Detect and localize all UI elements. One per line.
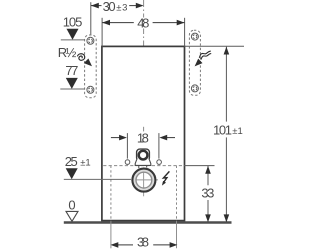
svg-text:0: 0 [68,197,75,212]
extension line 48 right [184,18,186,47]
dashed level line inside panel [103,165,184,167]
level marker 25±1 [64,154,158,180]
floor line [64,221,232,223]
connection symbol bottom left strip [87,86,94,93]
svg-text:30: 30 [103,0,116,14]
level marker 0 (floor) [66,197,78,221]
svg-text:38: 38 [137,235,149,250]
level marker 77 [60,63,84,89]
outlet pipe (big double circle) [131,167,158,196]
dimension 30±3 [91,0,144,14]
svg-text:33: 33 [201,185,214,200]
small fixing circle left [125,160,130,165]
electrical strip top right (dashed) [189,30,200,95]
extension line 30 left (to water strip) [90,2,92,35]
electrical flash symbol [162,171,170,185]
svg-text:18: 18 [137,130,149,145]
centerline (vertical dash-dot axis) [143,0,145,196]
svg-text:±1: ±1 [232,126,243,137]
water supply strip left (dashed) [85,35,97,98]
svg-text:±3: ±3 [116,3,127,14]
coil arrow top strip [195,51,212,66]
svg-text:48: 48 [137,15,149,30]
connection symbol top left strip [87,37,94,44]
water valve housing [135,149,151,168]
extension line top right (101 top reference) [185,45,244,47]
dimension 33 (right lower) [201,166,214,222]
svg-text:101: 101 [213,122,232,137]
connection symbol top right strip [191,33,198,40]
extension line 33 reference (right) [185,165,215,167]
dimension 18 (top of outlet fittings) [111,127,175,159]
panel (sanitary module outline) [102,46,185,220]
small fixing circle right [157,160,162,165]
level marker 105 [61,15,85,40]
svg-text:77: 77 [65,63,78,78]
connection symbol bottom right strip [191,85,198,92]
dimension 38 (bottom) [111,235,178,250]
svg-text:R½: R½ [58,45,77,60]
svg-text:105: 105 [63,15,83,30]
dimension 101±1 (right) [213,47,243,223]
dimension 48 [102,15,184,30]
dashed extension line 38 left [110,166,112,222]
svg-text:25: 25 [65,154,78,169]
svg-text:±1: ±1 [80,157,91,168]
dashed extension line 38 right [176,166,178,222]
label R1/2 with coil arrow [58,45,92,66]
extension line 48 left [101,18,103,47]
